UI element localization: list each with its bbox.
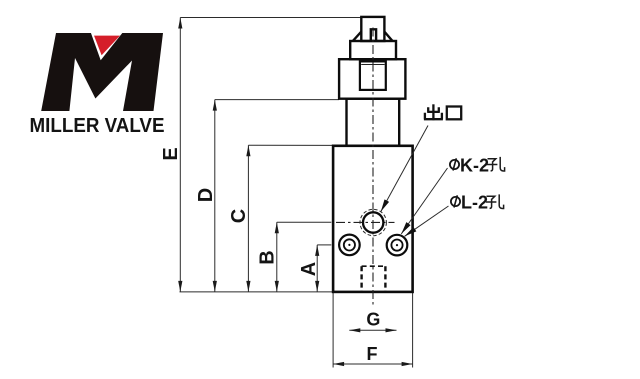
label kou (outlet) character [447,107,461,120]
leader arrow outlet [381,199,389,211]
C bottom arrow [246,281,250,292]
right slant shoulder [384,32,392,41]
thin dimension linework [180,18,413,368]
nut socket inner line [361,64,384,66]
leader line to outlet port [381,126,428,212]
F right arrow [402,362,413,366]
F dimension line [333,363,413,365]
neck rectangle [347,99,400,146]
dimension B line [276,222,278,292]
label chu (outlet) character [424,104,443,120]
leader line L holes [405,206,449,236]
svg-text:L-2: L-2 [461,193,488,213]
D bottom arrow [213,281,217,292]
dimension C extension line (body top) [248,144,333,146]
left mounting hole [339,235,360,256]
kong character for K row [487,157,505,171]
G left arrow [349,328,360,332]
hex nut rectangle [339,59,405,98]
baseline extension at body bottom [180,291,334,293]
svg-text:B: B [257,250,279,264]
vertical centerline [372,28,374,305]
valve body outline (thick) [333,17,413,292]
svg-text:C: C [228,209,250,223]
inner stem under cap [371,29,376,41]
G dimension line [349,329,396,331]
svg-text:F: F [367,344,378,364]
svg-text:G: G [366,310,380,330]
dimension E line [179,18,181,292]
svg-text:D: D [195,188,217,202]
E bottom arrow [178,281,182,292]
hidden slot dashed lines [362,266,386,291]
leader arrow K [401,222,410,234]
B top arrow [275,222,279,233]
E top arrow [178,18,182,29]
main body rectangle [333,146,413,292]
C top arrow [246,145,250,156]
horizontal centerline through port [336,221,395,223]
dimension A extension line (hole centre) [317,244,331,246]
left slant shoulder [353,32,361,41]
F left arrow [333,362,344,366]
dimension D extension line (nut bottom) [215,99,339,101]
kong character for L row [486,194,504,208]
right mounting hole [387,235,408,256]
logo M mark [41,32,163,112]
leader line K holes [401,168,447,234]
dimension arrowheads [178,18,412,367]
leader arrow L [405,227,417,236]
dimension D line [214,100,216,292]
outlet port dashed circle [360,209,386,235]
B bottom arrow [275,281,279,292]
svg-text:K-2: K-2 [460,156,489,176]
G right arrow [386,328,397,332]
outlet port circle [363,212,383,232]
nut socket rectangle [360,61,386,90]
dimension E extension line (top of cap) [180,17,361,19]
svg-text:MILLER VALVE: MILLER VALVE [30,115,165,137]
A bottom arrow [315,281,319,292]
top cap rectangle [361,17,384,41]
F left extension line [332,293,334,368]
logo red triangle [94,36,120,56]
upper collar rectangle [350,41,396,59]
dimension B extension line (port centre) [277,221,332,223]
A top arrow [315,245,319,256]
label phi-L-2 hole text [451,193,488,213]
svg-text:E: E [160,147,182,160]
label phi-K-2 hole text [450,156,489,176]
D top arrow [213,100,217,111]
dimension C line [247,145,249,292]
svg-text:A: A [298,262,320,276]
F right extension line [412,293,414,368]
dimension A line [316,245,318,292]
